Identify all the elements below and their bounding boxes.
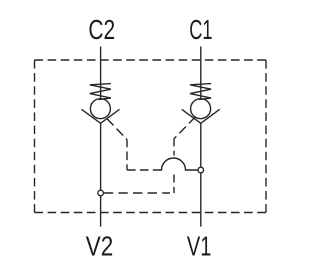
pilot line from left valve: vertical segment (dashed) bbox=[126, 140, 128, 170]
wire: C2 port line bbox=[100, 47, 102, 100]
enclosure: valve body dashed boundary (right edge) bbox=[265, 60, 267, 213]
enclosure: valve body dashed boundary (top edge) bbox=[35, 59, 267, 61]
pilot line from right valve: horizontal segment to V2 line (dashed) bbox=[104, 192, 170, 194]
enclosure: valve body dashed boundary (bottom edge) bbox=[35, 212, 267, 214]
wire: V1 port line bbox=[200, 123, 202, 226]
seat: left check valve seat V bbox=[82, 109, 120, 123]
ball: left check valve poppet bbox=[90, 99, 110, 119]
svg-text:V1: V1 bbox=[187, 229, 212, 261]
wire: C1 port line bbox=[200, 47, 202, 100]
svg-text:V2: V2 bbox=[86, 229, 114, 261]
bridge: pilot line hop over crossing pilot line bbox=[160, 158, 198, 170]
ball: right check valve poppet bbox=[191, 99, 211, 119]
node: pilot junction on V2 line bbox=[98, 190, 104, 196]
pilot line from left valve: horizontal segment (dashed) bbox=[127, 169, 160, 171]
pilot line from right valve: diagonal segment (dashed) bbox=[174, 117, 196, 139]
pilot line from right valve: vertical upper segment (dashed) bbox=[173, 139, 175, 156]
enclosure: valve body dashed boundary (left edge) bbox=[34, 60, 36, 213]
spring: right check valve spring bbox=[190, 84, 211, 100]
node: pilot junction on V1 line bbox=[198, 167, 204, 173]
pilot line from right valve: vertical lower segment (dashed) bbox=[173, 175, 175, 194]
svg-text:C2: C2 bbox=[88, 13, 115, 45]
svg-text:C1: C1 bbox=[189, 13, 212, 45]
seat: right check valve seat V bbox=[182, 109, 220, 123]
wire: V2 port line bbox=[100, 123, 102, 226]
spring: left check valve spring bbox=[90, 84, 111, 100]
pilot line from left valve: diagonal segment (dashed) bbox=[107, 119, 127, 140]
